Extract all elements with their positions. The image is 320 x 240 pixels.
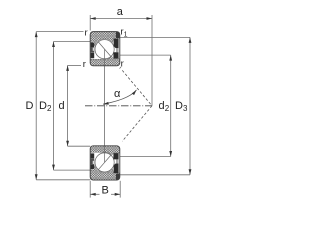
svg-text:D: D xyxy=(39,100,47,112)
dimension d vertical xyxy=(68,65,91,146)
a left extension line xyxy=(89,15,91,31)
svg-text:1: 1 xyxy=(124,31,128,38)
svg-text:r: r xyxy=(83,59,86,70)
svg-text:a: a xyxy=(117,6,124,18)
svg-text:B: B xyxy=(102,185,109,197)
svg-text:3: 3 xyxy=(183,104,188,113)
dimension a line xyxy=(90,15,152,106)
svg-text:d: d xyxy=(159,100,165,112)
dimension D vertical xyxy=(36,32,90,180)
dimension B bottom xyxy=(90,181,120,198)
svg-text:r: r xyxy=(121,59,124,70)
alpha angle swoosh arrow xyxy=(103,90,137,104)
svg-text:2: 2 xyxy=(165,104,170,113)
D top extension xyxy=(36,31,83,33)
dimension d2 vertical xyxy=(120,55,171,156)
dimension D2 vertical xyxy=(54,42,91,171)
axis centerline (dash-dot) xyxy=(85,105,152,107)
upper bearing section xyxy=(90,32,120,66)
svg-text:d: d xyxy=(58,100,64,112)
pressure line dashed upper xyxy=(122,70,152,105)
a arrows xyxy=(90,17,96,20)
a right extension line (down to apex) xyxy=(151,15,153,106)
lower bearing section (mirrored) xyxy=(90,146,120,180)
svg-text:2: 2 xyxy=(47,104,52,113)
radial line through ball centers xyxy=(104,49,106,162)
D bottom extension xyxy=(36,179,90,181)
svg-text:D: D xyxy=(175,100,183,112)
svg-text:r: r xyxy=(85,27,88,38)
svg-text:D: D xyxy=(26,100,34,112)
pressure line dashed lower xyxy=(122,106,152,141)
svg-text:α: α xyxy=(114,88,121,100)
dimension D3 vertical xyxy=(119,37,190,174)
